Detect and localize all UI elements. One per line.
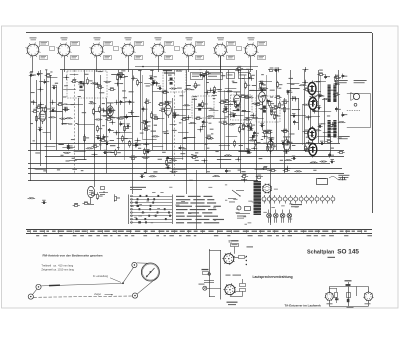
capacitor C48 bbox=[67, 143, 73, 148]
resistor R27 bbox=[282, 100, 289, 104]
value label bbox=[58, 144, 63, 145]
coil L bbox=[309, 96, 317, 98]
capacitor C3 bbox=[202, 73, 207, 77]
coil L bbox=[184, 88, 192, 90]
wire stub bbox=[218, 91, 232, 93]
wire tube drop bbox=[250, 56, 252, 72]
wire bbox=[146, 98, 148, 173]
node junction bbox=[302, 80, 308, 85]
value label bbox=[183, 138, 188, 139]
svg-text:TA-Entzerrer im Laufwerk: TA-Entzerrer im Laufwerk bbox=[285, 304, 322, 308]
coil L bbox=[142, 157, 150, 159]
tube socket V6 top view bbox=[182, 37, 205, 59]
mains switch bbox=[317, 176, 345, 184]
wire bbox=[94, 70, 96, 187]
resistor R97 bbox=[333, 92, 340, 95]
coil L bbox=[259, 108, 267, 110]
wire bbox=[304, 70, 306, 150]
value label bbox=[107, 152, 111, 153]
wire tube drop bbox=[32, 56, 34, 72]
resistor R88 bbox=[89, 192, 96, 196]
wire bbox=[204, 75, 206, 150]
resistor R79 bbox=[115, 149, 121, 157]
node junction bbox=[290, 96, 296, 101]
capacitor C26 bbox=[223, 106, 228, 110]
speaker labels bbox=[337, 80, 367, 180]
wire rail bbox=[28, 180, 258, 182]
wire dashed divider bbox=[174, 70, 176, 176]
resistor R28 bbox=[202, 100, 208, 108]
resistor R83 bbox=[262, 166, 269, 169]
switch bank matrix bbox=[129, 187, 173, 224]
coil L bbox=[316, 94, 324, 96]
wire stub bbox=[43, 132, 51, 134]
node junction bbox=[135, 138, 141, 143]
wire rail bbox=[28, 150, 344, 152]
coil L bbox=[244, 119, 252, 121]
capacitor C5 bbox=[29, 72, 34, 76]
resistor R47 bbox=[151, 111, 157, 119]
node junction bbox=[250, 113, 256, 118]
motor symbol M1 bbox=[262, 184, 272, 194]
resistor R63 bbox=[239, 126, 245, 134]
value label bbox=[221, 75, 225, 76]
resistor R76 bbox=[144, 148, 150, 156]
capacitor C31 bbox=[291, 113, 296, 117]
tube socket V1 top view bbox=[26, 37, 55, 59]
resistor R6 bbox=[71, 79, 78, 83]
wire stub bbox=[292, 109, 300, 111]
node junction bbox=[97, 136, 103, 141]
value label bbox=[285, 153, 288, 154]
pulley P3 bbox=[132, 262, 137, 267]
resistor R102 bbox=[317, 72, 324, 75]
capacitor C14 bbox=[157, 86, 162, 90]
capacitor C68 bbox=[269, 137, 274, 141]
resistor R103 bbox=[335, 74, 341, 82]
resistor R19 bbox=[235, 101, 241, 109]
node junction bbox=[197, 127, 203, 132]
capacitor C6 bbox=[120, 75, 126, 80]
wire stub bbox=[111, 74, 124, 76]
node junction bbox=[50, 100, 56, 105]
value label bbox=[211, 109, 215, 110]
node junction bbox=[248, 76, 254, 81]
switch matrix text legend bbox=[176, 196, 224, 224]
wire strip rail bbox=[135, 66, 258, 68]
svg-text:Zeigerseil ca. 1010 mm lang: Zeigerseil ca. 1010 mm lang bbox=[41, 267, 74, 271]
wire stub bbox=[152, 91, 167, 93]
svg-text:Zeiger: Zeiger bbox=[94, 293, 101, 296]
wire stub bbox=[225, 104, 233, 106]
node junction bbox=[241, 177, 247, 182]
node junction bbox=[200, 124, 206, 129]
resistor R51 bbox=[274, 112, 280, 120]
value label bbox=[109, 117, 113, 118]
capacitor C27 bbox=[313, 109, 319, 114]
wire bbox=[330, 137, 332, 156]
resistor R52 bbox=[228, 113, 235, 117]
TA capacitor stack bbox=[345, 280, 352, 285]
strip boxes bbox=[191, 73, 249, 80]
resistor R45 bbox=[181, 117, 188, 120]
coil L bbox=[117, 118, 125, 120]
resistor R54 bbox=[250, 121, 256, 129]
resistor R31 bbox=[108, 108, 114, 116]
resistor R67 bbox=[205, 135, 212, 139]
resistor R35 bbox=[45, 105, 51, 113]
value label bbox=[242, 125, 246, 126]
node junction bbox=[284, 166, 290, 171]
resistor R12 bbox=[137, 79, 143, 87]
wire stub bbox=[35, 169, 46, 171]
left cluster 230V box bbox=[199, 269, 221, 290]
resistor R68 bbox=[122, 135, 128, 143]
resistor R57 bbox=[145, 122, 151, 130]
capacitor C57 bbox=[247, 149, 252, 153]
tube socket V2 top view bbox=[57, 37, 80, 59]
capacitor C67 bbox=[319, 94, 325, 99]
resistor R89 bbox=[115, 194, 121, 202]
node junction bbox=[154, 81, 160, 86]
wire stub bbox=[323, 132, 337, 134]
capacitor C47 bbox=[96, 135, 101, 139]
wire bbox=[338, 70, 340, 143]
node junction bbox=[293, 97, 299, 102]
wire bbox=[30, 75, 32, 181]
wire bbox=[140, 70, 142, 130]
wire bbox=[50, 75, 52, 140]
capacitor C32 bbox=[232, 113, 237, 117]
wire rail bbox=[60, 69, 253, 71]
value label bbox=[263, 143, 268, 144]
wire bbox=[262, 98, 264, 130]
capacitor C56 bbox=[146, 149, 151, 153]
resistor R13 bbox=[97, 85, 104, 88]
capacitor C10 bbox=[152, 80, 158, 85]
capacitor C38 bbox=[126, 123, 131, 127]
node junction bbox=[204, 90, 210, 95]
wire stub bbox=[74, 151, 86, 153]
wire frame right border bbox=[372, 33, 374, 213]
wire stub bbox=[252, 118, 263, 120]
wire stub bbox=[75, 159, 87, 161]
value label bbox=[122, 90, 126, 91]
capacitor C54 bbox=[328, 153, 334, 158]
wire bbox=[166, 70, 168, 150]
capacitor C34 bbox=[260, 123, 265, 127]
resistor R78 bbox=[338, 150, 345, 153]
wire stub bbox=[45, 146, 56, 148]
node junction bbox=[262, 134, 268, 139]
capacitor C62 bbox=[166, 165, 171, 169]
wire bbox=[276, 70, 278, 150]
resistor R98 bbox=[239, 94, 246, 97]
wire stub bbox=[153, 146, 163, 148]
resistor R22 bbox=[219, 100, 226, 104]
resistor R66 bbox=[99, 138, 106, 142]
value label bbox=[151, 131, 156, 132]
capacitor C12 bbox=[260, 87, 266, 92]
coil L bbox=[262, 130, 270, 132]
wire stub bbox=[213, 118, 227, 120]
capacitor C43 bbox=[248, 126, 253, 130]
node junction bbox=[114, 100, 120, 105]
coil L bbox=[212, 175, 220, 177]
middle text row bbox=[226, 275, 242, 276]
resistor R96 bbox=[274, 95, 281, 98]
speaker socket S2 bbox=[223, 283, 236, 296]
transformer Tr2 output bbox=[327, 120, 337, 138]
resistor R43 bbox=[32, 109, 39, 113]
node junction bbox=[63, 75, 69, 80]
svg-text:Lautsprecherverdrahtung: Lautsprecherverdrahtung bbox=[253, 275, 293, 279]
capacitor C63 bbox=[225, 168, 231, 173]
resistor R36 bbox=[110, 107, 116, 115]
wire bbox=[124, 75, 126, 160]
transformer Tr1 output bbox=[327, 85, 337, 103]
socket S2 labels bbox=[227, 279, 246, 305]
resistor R93 bbox=[268, 68, 275, 72]
wire bbox=[172, 98, 174, 173]
capacitor C35 bbox=[293, 120, 299, 125]
pulley P4 bbox=[132, 293, 137, 298]
wire stub bbox=[241, 111, 250, 113]
node junction bbox=[131, 76, 137, 81]
value label bbox=[153, 171, 157, 172]
wire tube drop bbox=[128, 56, 130, 72]
wire bbox=[56, 85, 58, 150]
resistor R24 bbox=[57, 102, 64, 105]
capacitor C28 bbox=[342, 112, 348, 117]
resistor R17 bbox=[214, 86, 220, 94]
capacitor C15 bbox=[287, 90, 293, 95]
wire bbox=[206, 70, 208, 173]
wire bbox=[78, 98, 80, 150]
wire stub bbox=[259, 81, 272, 83]
resistor R42 bbox=[99, 105, 105, 113]
capacitor C66 bbox=[274, 68, 279, 72]
wire stub bbox=[195, 108, 208, 110]
node junction bbox=[208, 88, 214, 93]
resistor R86 bbox=[256, 175, 263, 179]
capacitor C64 bbox=[140, 174, 145, 178]
wire stub bbox=[143, 139, 157, 141]
tube socket V5 top view bbox=[151, 37, 180, 59]
wire stub bbox=[226, 136, 238, 138]
coil L bbox=[91, 83, 99, 85]
resistor R85 bbox=[283, 168, 290, 171]
resistor R7 bbox=[277, 81, 283, 89]
node junction bbox=[185, 115, 191, 120]
wire stub bbox=[305, 116, 320, 118]
wire stub bbox=[155, 118, 165, 120]
resistor R11 bbox=[260, 81, 266, 89]
wire stub bbox=[47, 77, 57, 79]
value label bbox=[189, 180, 193, 181]
wire stub bbox=[117, 138, 133, 140]
resistor R18 bbox=[158, 102, 165, 105]
resistor R99 bbox=[325, 139, 332, 142]
value label bbox=[331, 148, 334, 149]
capacitor C13 bbox=[212, 90, 217, 94]
resistor R60 bbox=[262, 130, 269, 134]
IF transformer can Fi4 bbox=[256, 96, 280, 122]
value label bbox=[164, 133, 169, 134]
coil L bbox=[310, 162, 318, 164]
value label bbox=[207, 118, 210, 119]
wire bbox=[224, 90, 226, 150]
wire bbox=[100, 75, 102, 150]
wire stub bbox=[225, 88, 237, 90]
resistor R94 bbox=[236, 66, 243, 70]
value label bbox=[168, 75, 172, 76]
wire stub bbox=[70, 74, 79, 76]
resistor R20 bbox=[255, 102, 262, 105]
value label bbox=[233, 110, 238, 111]
wire dashed divider bbox=[74, 70, 76, 174]
resistor R4 bbox=[45, 73, 52, 76]
capacitor C2 bbox=[149, 75, 154, 79]
resistor R3 bbox=[249, 72, 255, 80]
tube Ro5 bbox=[259, 88, 266, 105]
capacitor C55 bbox=[245, 148, 250, 152]
capacitor C8 bbox=[43, 79, 49, 84]
capacitor C39 bbox=[202, 120, 208, 125]
coil L bbox=[59, 118, 67, 120]
tube socket V3 top view bbox=[90, 37, 119, 59]
coil L bbox=[314, 130, 322, 132]
resistor R30 bbox=[93, 108, 99, 116]
tube Ro6 bbox=[267, 137, 274, 154]
wire stub bbox=[314, 81, 326, 83]
wire stub bbox=[307, 91, 321, 93]
resistor R44 bbox=[195, 117, 202, 120]
resistor R10 bbox=[245, 82, 251, 90]
capacitor C70 bbox=[281, 141, 286, 145]
tube Ro3 bbox=[165, 101, 172, 118]
wire stub bbox=[245, 117, 258, 119]
wire stub bbox=[281, 130, 288, 132]
resistor R69 bbox=[84, 134, 90, 142]
tube Ro2 bbox=[107, 102, 114, 119]
coil L bbox=[89, 103, 97, 105]
value label bbox=[102, 103, 105, 104]
wire bbox=[320, 75, 322, 95]
resistor R49 bbox=[152, 116, 159, 119]
capacitor C36 bbox=[318, 124, 323, 128]
resistor R40 bbox=[271, 108, 277, 116]
wire bbox=[324, 98, 326, 143]
wire tube drop bbox=[96, 56, 98, 72]
coil L bbox=[322, 98, 330, 100]
coil L bbox=[206, 138, 214, 140]
resistor R92 bbox=[73, 203, 80, 207]
wire pointer to anchor bbox=[110, 278, 121, 283]
capacitor C46 bbox=[103, 134, 109, 139]
value label bbox=[242, 110, 246, 111]
magic eye aux parts bbox=[99, 187, 108, 195]
coil L bbox=[299, 84, 307, 86]
tube EL84 output bbox=[308, 81, 316, 97]
coil L bbox=[63, 152, 71, 154]
resistor R59 bbox=[265, 130, 272, 134]
value label bbox=[55, 83, 58, 84]
value label bbox=[129, 91, 134, 92]
wire stub bbox=[219, 145, 230, 147]
TA circuit wires bbox=[329, 287, 368, 307]
svg-text:Treibseil ca. 410 mm lang: Treibseil ca. 410 mm lang bbox=[41, 264, 73, 268]
speaker socket S1 bbox=[222, 252, 235, 265]
capacitor C49 bbox=[67, 146, 73, 151]
coil L bbox=[169, 88, 177, 90]
wire stub bbox=[315, 111, 331, 113]
coil L bbox=[246, 97, 254, 99]
subtitle bbox=[328, 257, 336, 258]
node junction bbox=[31, 100, 37, 105]
node junction bbox=[251, 146, 257, 151]
node junction bbox=[115, 81, 121, 86]
capacitor C19 bbox=[120, 100, 126, 105]
coil L bbox=[104, 81, 112, 83]
tube Ro4 bbox=[234, 91, 241, 108]
value label bbox=[262, 95, 267, 96]
resistor R55 bbox=[141, 120, 148, 123]
capacitor C4 bbox=[37, 71, 43, 76]
node junction bbox=[276, 67, 282, 72]
wire bbox=[182, 90, 184, 160]
coil L bbox=[302, 104, 310, 106]
resistor R84 bbox=[269, 168, 276, 171]
coil L bbox=[28, 197, 36, 199]
wire rail bbox=[28, 163, 330, 165]
wire stub bbox=[217, 159, 231, 161]
resistor R23 bbox=[223, 99, 230, 103]
capacitor C58 bbox=[103, 150, 108, 154]
resistor R82 bbox=[191, 155, 198, 158]
coil L bbox=[226, 91, 234, 93]
wire stub bbox=[62, 147, 74, 149]
dial scale band bbox=[26, 230, 372, 237]
wire stub bbox=[233, 115, 243, 117]
wire stub bbox=[63, 89, 76, 91]
resistor R48 bbox=[105, 117, 112, 121]
TA pin labels bbox=[327, 303, 371, 308]
wire speaker loop bbox=[347, 94, 371, 128]
capacitor C51 bbox=[104, 141, 109, 145]
resistor R65 bbox=[143, 127, 150, 131]
wire bbox=[302, 105, 304, 145]
wire bbox=[220, 56, 222, 168]
capacitor C71 bbox=[324, 74, 330, 79]
wire rail bbox=[28, 173, 344, 175]
value label bbox=[154, 125, 157, 126]
wire stub bbox=[290, 88, 299, 90]
wire stub bbox=[178, 132, 189, 134]
node junction bbox=[128, 110, 134, 115]
coil L bbox=[149, 176, 157, 178]
resistor R73 bbox=[92, 144, 99, 148]
wire bbox=[62, 70, 64, 125]
wire bbox=[132, 70, 134, 194]
node junction bbox=[101, 108, 107, 113]
resistor R56 bbox=[243, 123, 249, 131]
resistor R9 bbox=[195, 81, 201, 89]
wire bbox=[40, 70, 42, 166]
wire stub bbox=[184, 137, 196, 139]
resistor R29 bbox=[163, 101, 170, 105]
resistor R32 bbox=[159, 108, 166, 112]
